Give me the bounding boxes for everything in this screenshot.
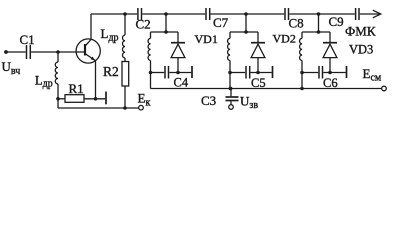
svg-text:R2: R2 [103,64,119,79]
svg-text:C5: C5 [251,76,266,90]
svg-text:C7: C7 [213,15,229,30]
svg-text:C6: C6 [323,76,338,90]
svg-text:C2: C2 [136,17,151,32]
svg-text:VD2: VD2 [273,32,296,46]
svg-text:C9: C9 [329,14,344,29]
svg-text:ФМК: ФМК [345,24,376,39]
svg-text:C8: C8 [289,16,304,31]
svg-text:VD1: VD1 [195,32,218,46]
svg-text:VD3: VD3 [349,43,373,57]
svg-text:C1: C1 [20,32,35,47]
svg-text:R1: R1 [69,81,84,96]
svg-text:C3: C3 [201,93,216,108]
svg-text:C4: C4 [174,76,189,90]
